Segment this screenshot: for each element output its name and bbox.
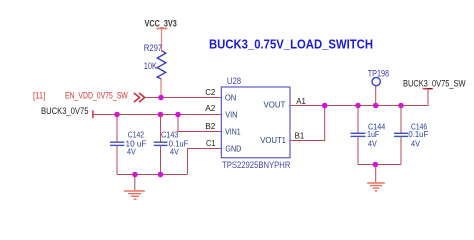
svg-text:VIN1: VIN1 <box>225 127 241 137</box>
junction C144 top <box>355 103 361 109</box>
svg-text:VCC_3V3: VCC_3V3 <box>145 19 177 29</box>
svg-text:VIN: VIN <box>225 110 237 120</box>
wire bottom rail right <box>358 164 401 166</box>
junction C146 top <box>398 103 404 109</box>
ground symbol right <box>367 165 385 191</box>
port tick BUCK3_0V75 <box>92 110 94 118</box>
wire EN_VDD_0V75_SW to pin ON <box>145 97 222 99</box>
svg-text:0.1uF: 0.1uF <box>408 129 428 139</box>
wire bottom rail left <box>117 174 188 176</box>
svg-text:4V: 4V <box>170 147 179 157</box>
wire GND pin to rail <box>188 149 222 175</box>
svg-text:B1: B1 <box>295 131 305 141</box>
svg-text:B2: B2 <box>205 121 215 131</box>
capacitor C146 <box>394 106 408 165</box>
svg-text:U28: U28 <box>227 76 241 86</box>
junction ground tap left <box>132 172 138 178</box>
svg-text:VOUT: VOUT <box>264 100 286 110</box>
port tick BUCK3_0V75_SW <box>423 88 433 90</box>
svg-text:4V: 4V <box>368 139 377 149</box>
wire VOUT1 to VOUT rail <box>290 106 325 141</box>
svg-text:A2: A2 <box>205 103 215 113</box>
svg-text:TPS22925BNYPHR: TPS22925BNYPHR <box>222 160 290 170</box>
junction C142 top <box>114 112 120 118</box>
svg-text:BUCK3_0V75_SW: BUCK3_0V75_SW <box>403 79 466 89</box>
wire VOUT rail <box>290 89 428 106</box>
junction TP tap <box>373 103 379 109</box>
svg-text:GND: GND <box>225 144 241 154</box>
svg-text:10K: 10K <box>144 61 157 71</box>
svg-text:ON: ON <box>225 92 236 102</box>
test point TP198 circle <box>372 78 380 86</box>
svg-text:4V: 4V <box>127 147 136 157</box>
capacitor C142 <box>110 115 124 175</box>
junction VIN1 branch <box>175 112 181 118</box>
capacitor C144 <box>351 106 366 165</box>
wire BUCK3_0V75 to pin VIN <box>93 114 221 116</box>
svg-text:EN_VDD_0V75_SW: EN_VDD_0V75_SW <box>65 90 128 100</box>
junction VOUT1 join <box>322 103 328 109</box>
svg-text:BUCK3_0.75V_LOAD_SWITCH: BUCK3_0.75V_LOAD_SWITCH <box>209 37 373 52</box>
svg-text:1uF: 1uF <box>367 129 379 139</box>
off-page connector chevron EN <box>134 93 145 102</box>
test point TP198 stem <box>375 86 377 106</box>
svg-text:A1: A1 <box>296 96 306 106</box>
resistor R297 bottom lead <box>160 79 162 96</box>
resistor R297 <box>157 51 166 80</box>
svg-text:TP198: TP198 <box>368 68 389 78</box>
wire branch to pin VIN1 <box>178 115 221 132</box>
junction C143 bottom <box>158 172 164 178</box>
capacitor C143 <box>154 115 168 175</box>
junction EN/resistor <box>158 95 164 101</box>
svg-text:VOUT1: VOUT1 <box>260 135 286 145</box>
svg-text:4V: 4V <box>411 139 420 149</box>
ground symbol left <box>124 175 145 200</box>
svg-text:C1: C1 <box>206 138 216 148</box>
IC U28 load switch body <box>221 87 290 158</box>
svg-text:BUCK3_0V75: BUCK3_0V75 <box>41 106 89 116</box>
svg-text:C2: C2 <box>205 87 215 97</box>
svg-text:[11]: [11] <box>33 91 45 101</box>
power symbol VCC_3V3 <box>157 29 168 52</box>
junction C143 top <box>158 112 164 118</box>
junction ground tap right <box>373 162 379 168</box>
svg-text:R297: R297 <box>144 43 162 53</box>
